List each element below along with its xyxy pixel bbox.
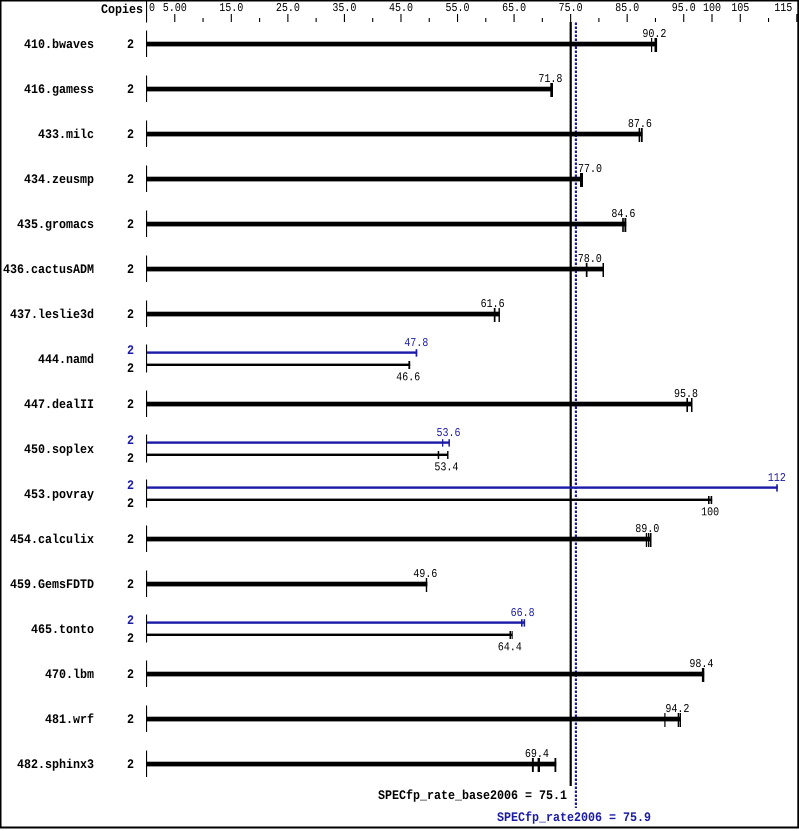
row 453.povray : base value label 100 xyxy=(702,507,719,515)
row 481.wrf : value label 94.2 xyxy=(666,704,689,712)
row 453.povray : peak value label 112 xyxy=(769,473,786,481)
row 459.GemsFDTD : name and copies xyxy=(10,579,93,588)
row 482.sphinx3 : base bar xyxy=(147,762,556,767)
row 434.zeusmp : run ticks xyxy=(580,173,583,187)
row 435.gromacs : value label 84.6 xyxy=(612,209,635,217)
row 465.tonto : peak bar (blue) xyxy=(147,621,525,623)
row 470.lbm : name and copies xyxy=(45,669,93,679)
row 454.calculix : base bar xyxy=(147,537,651,542)
overall base result label xyxy=(378,789,566,801)
row 447.dealII : axis segment xyxy=(146,391,147,418)
row 433.milc : axis segment xyxy=(146,121,147,148)
row 437.leslie3d : name and copies xyxy=(10,309,93,319)
row 482.sphinx3 : value label 69.4 xyxy=(526,749,549,757)
row 433.milc : name and copies xyxy=(38,129,93,139)
row 482.sphinx3 : axis segment xyxy=(146,751,147,778)
base median reference line 75.1 (solid black) xyxy=(570,22,572,786)
border frame xyxy=(0,0,799,2)
row 433.milc : base bar xyxy=(147,132,643,137)
row 450.soplex : base value label 53.4 xyxy=(435,462,458,470)
row 470.lbm : base bar xyxy=(147,672,704,677)
row 437.leslie3d : axis segment xyxy=(146,301,147,328)
row 450.soplex : peak value label 53.6 xyxy=(437,428,460,436)
peak median reference line 75.9 (blue dotted) xyxy=(575,23,577,809)
row 435.gromacs : base bar xyxy=(147,222,626,227)
row 410.bwaves : base bar xyxy=(147,42,657,47)
row 410.bwaves : value label 90.2 xyxy=(643,29,666,37)
row 450.soplex : name and copies xyxy=(24,444,93,456)
row 454.calculix : run ticks xyxy=(646,533,647,547)
Copies column header xyxy=(101,4,142,16)
row 454.calculix : name and copies xyxy=(10,534,93,544)
row 435.gromacs : name and copies xyxy=(17,219,93,230)
row 459.GemsFDTD : axis segment xyxy=(146,571,147,598)
row 436.cactusADM : base bar xyxy=(147,267,604,272)
row 465.tonto : name and copies xyxy=(31,624,93,633)
row 481.wrf : axis segment xyxy=(146,706,147,733)
row 444.namd : peak bar (blue) xyxy=(147,351,417,353)
row 410.bwaves : axis segment xyxy=(146,31,147,58)
row 465.tonto : peak value label 66.8 xyxy=(511,608,534,616)
row 447.dealII : base bar xyxy=(147,402,692,407)
row 482.sphinx3 : run ticks xyxy=(532,758,534,772)
row 435.gromacs : run ticks xyxy=(622,218,624,232)
row 481.wrf : name and copies xyxy=(45,713,93,723)
row 434.zeusmp : base bar xyxy=(147,177,583,182)
row 433.milc : run ticks xyxy=(639,128,641,142)
row 444.namd : name and copies xyxy=(38,354,93,364)
row 416.gamess : run ticks xyxy=(550,83,553,97)
row 444.namd : base value label 46.6 xyxy=(397,372,420,380)
row 434.zeusmp : name and copies xyxy=(24,174,93,185)
row 436.cactusADM : value label 78.0 xyxy=(579,254,602,262)
row 444.namd : peak value label 47.8 xyxy=(405,338,428,346)
row 453.povray : axis segment xyxy=(146,480,147,508)
row 437.leslie3d : value label 61.6 xyxy=(481,299,504,307)
row 450.soplex : base bar (black) xyxy=(147,454,449,456)
row 465.tonto : base value label 64.4 xyxy=(499,642,522,650)
row 482.sphinx3 : name and copies xyxy=(17,759,93,771)
row 450.soplex : axis segment xyxy=(146,435,147,463)
row 437.leslie3d : run ticks xyxy=(494,308,496,322)
row 447.dealII : value label 95.8 xyxy=(675,389,698,397)
row 459.GemsFDTD : value label 49.6 xyxy=(414,569,437,577)
row 454.calculix : value label 89.0 xyxy=(636,524,659,532)
row 434.zeusmp : axis segment xyxy=(146,166,147,193)
row 453.povray : peak bar (blue) xyxy=(147,486,778,488)
row 416.gamess : base bar xyxy=(147,87,553,92)
axis vertical line top segment xyxy=(146,1,147,23)
row 459.GemsFDTD : run ticks xyxy=(426,578,427,592)
row 465.tonto : base bar (black) xyxy=(147,634,513,636)
row 453.povray : name and copies xyxy=(24,489,93,500)
row 436.cactusADM : name and copies xyxy=(3,264,93,273)
row 447.dealII : name and copies xyxy=(24,399,93,409)
row 444.namd : base bar (black) xyxy=(147,364,410,366)
row 481.wrf : base bar xyxy=(147,717,681,722)
row 459.GemsFDTD : base bar xyxy=(147,582,427,587)
row 465.tonto : axis segment xyxy=(146,615,147,643)
row 453.povray : base bar (black) xyxy=(147,499,712,501)
row 436.cactusADM : run ticks xyxy=(586,263,588,277)
row 450.soplex : peak bar (blue) xyxy=(147,441,450,443)
row 447.dealII : run ticks xyxy=(686,398,688,412)
axis scale labels xyxy=(150,3,155,11)
overall peak result label xyxy=(497,811,650,823)
row 470.lbm : run ticks xyxy=(702,668,704,682)
row 454.calculix : axis segment xyxy=(146,526,147,553)
row 434.zeusmp : value label 77.0 xyxy=(579,164,602,172)
row 436.cactusADM : axis segment xyxy=(146,256,147,283)
row 470.lbm : value label 98.4 xyxy=(690,659,713,667)
row 470.lbm : axis segment xyxy=(146,661,147,688)
row 416.gamess : value label 71.8 xyxy=(539,74,562,82)
row 481.wrf : run ticks xyxy=(664,713,665,727)
row 410.bwaves : name and copies xyxy=(24,39,93,49)
row 416.gamess : name and copies xyxy=(24,84,93,95)
row 444.namd : axis segment xyxy=(146,345,147,373)
row 435.gromacs : axis segment xyxy=(146,211,147,238)
row 433.milc : value label 87.6 xyxy=(629,119,652,127)
row 410.bwaves : run ticks xyxy=(651,38,652,52)
axis tick marks xyxy=(174,14,175,22)
row 416.gamess : axis segment xyxy=(146,76,147,103)
row 437.leslie3d : base bar xyxy=(147,312,500,317)
